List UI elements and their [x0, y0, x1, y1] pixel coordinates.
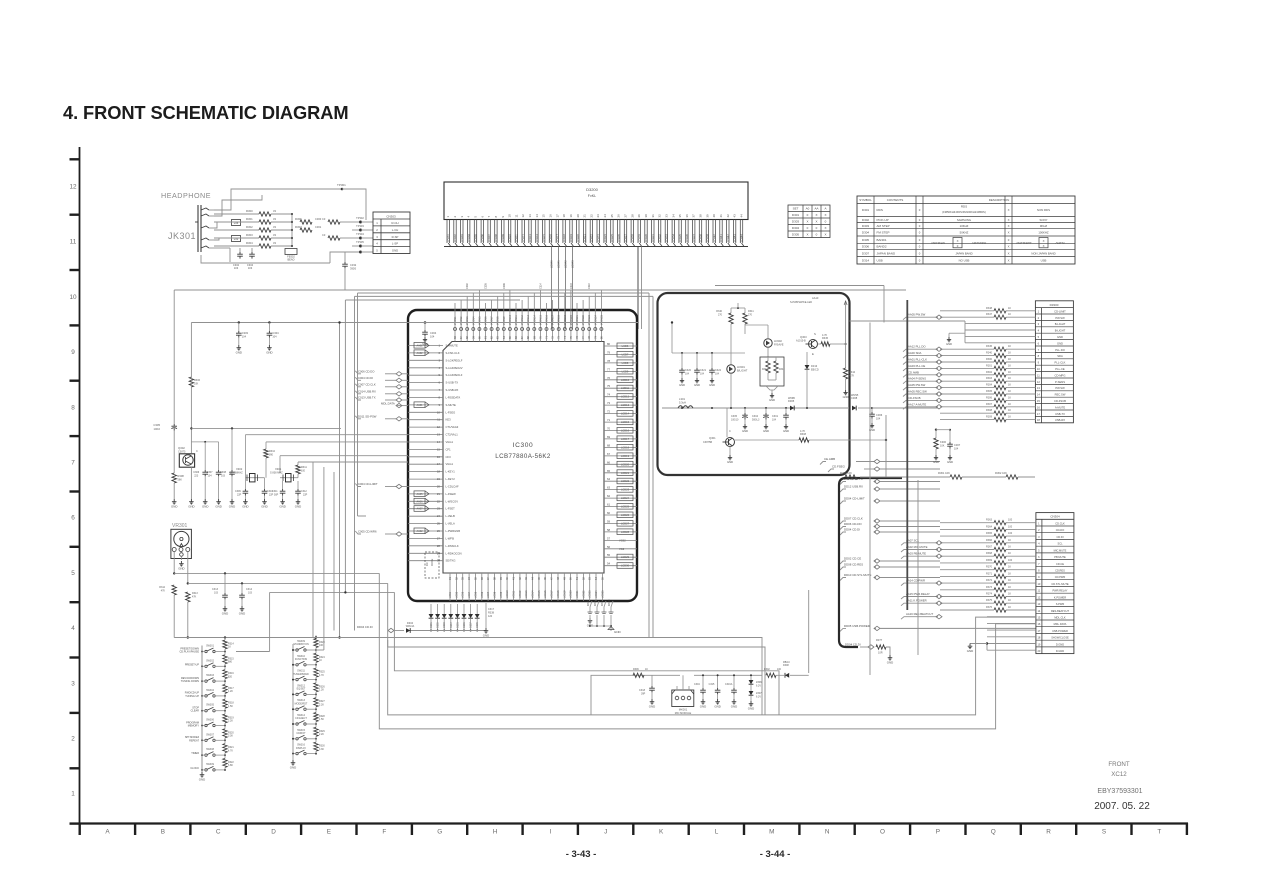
svg-text:VCOM20: VCOM20 — [570, 314, 573, 325]
svg-text:VCOM1: VCOM1 — [454, 316, 457, 325]
svg-text:FM STEP: FM STEP — [877, 231, 890, 235]
svg-text:65: 65 — [607, 469, 611, 473]
svg-text:GND: GND — [392, 249, 398, 253]
svg-text:1K: 1K — [1008, 396, 1011, 399]
svg-text:CF1: CF1 — [446, 447, 452, 451]
svg-text:D305: D305 — [792, 233, 800, 237]
svg-text:GND: GND — [709, 383, 715, 387]
svg-text:O: O — [880, 829, 885, 836]
svg-text:LD334: LD334 — [671, 234, 675, 242]
svg-text:GND: GND — [279, 504, 285, 508]
svg-text:16: 16 — [549, 214, 553, 218]
svg-text:26: 26 — [437, 529, 441, 533]
svg-text:AA05 REC.SW: AA05 REC.SW — [908, 390, 927, 394]
svg-text:L-CDLCAF: L-CDLCAF — [446, 485, 459, 489]
svg-text:HEADPHONE: HEADPHONE — [161, 191, 211, 200]
svg-text:LCD12: LCD12 — [621, 395, 630, 399]
svg-text:D318: D318 — [595, 600, 597, 606]
svg-text:I: I — [550, 829, 552, 836]
svg-text:GND: GND — [731, 704, 737, 708]
svg-text:GND: GND — [266, 350, 272, 354]
svg-text:11: 11 — [70, 239, 77, 246]
svg-text:AA02 MIC.MUTE: AA02 MIC.MUTE — [906, 545, 928, 549]
svg-text:PB.MUTE: PB.MUTE — [1054, 555, 1066, 559]
svg-text:X: X — [1008, 259, 1010, 263]
svg-text:CT1/VAG3: CT1/VAG3 — [446, 425, 459, 429]
svg-text:CD.PWR: CD.PWR — [1055, 575, 1066, 579]
svg-text:LD342: LD342 — [726, 234, 730, 242]
svg-text:AM/FM/LW: AM/FM/LW — [931, 241, 945, 245]
svg-text:L-KEY1: L-KEY1 — [446, 470, 456, 474]
svg-text:25: 25 — [437, 522, 441, 526]
svg-text:VCOM15: VCOM15 — [539, 314, 542, 325]
svg-text:1K: 1K — [1008, 371, 1011, 374]
svg-text:C3875B: C3875B — [703, 441, 712, 444]
svg-text:LCD8: LCD8 — [622, 361, 629, 365]
svg-text:AA14 CD.PWR: AA14 CD.PWR — [906, 579, 925, 583]
svg-text:10: 10 — [508, 214, 512, 218]
svg-text:1K: 1K — [1008, 384, 1011, 387]
svg-text:25: 25 — [610, 214, 614, 218]
svg-text:K.POWER: K.POWER — [1054, 595, 1066, 599]
svg-text:22P: 22P — [237, 494, 242, 497]
svg-text:C005 CD.WR6: C005 CD.WR6 — [358, 530, 377, 534]
svg-text:LD318: LD318 — [562, 234, 566, 242]
svg-text:AA02: AA02 — [416, 352, 423, 355]
svg-text:21: 21 — [437, 492, 441, 496]
svg-text:S-USB-TX: S-USB-TX — [446, 381, 459, 385]
svg-text:9KHZ: 9KHZ — [1040, 224, 1047, 228]
svg-text:LD343: LD343 — [733, 234, 737, 242]
svg-text:SW306: SW306 — [206, 719, 215, 722]
svg-text:TUNING DOWN: TUNING DOWN — [181, 680, 199, 683]
svg-text:VCOM18: VCOM18 — [558, 314, 561, 325]
svg-text:LD304: LD304 — [467, 234, 471, 242]
svg-text:AA: AA — [814, 207, 818, 211]
svg-text:1K: 1K — [1008, 307, 1011, 310]
svg-text:AA05: AA05 — [416, 493, 423, 496]
svg-text:LD343: LD343 — [571, 260, 575, 268]
svg-text:LCD7: LCD7 — [487, 591, 490, 598]
svg-text:LCD7: LCD7 — [622, 352, 629, 356]
svg-text:GND: GND — [1057, 341, 1063, 345]
svg-text:R-CH: R-CH — [392, 221, 399, 225]
svg-text:LCD15: LCD15 — [538, 590, 541, 598]
svg-text:42: 42 — [726, 214, 730, 218]
svg-text:S 838 MHZ: S 838 MHZ — [270, 472, 283, 475]
svg-text:LCD22: LCD22 — [621, 479, 630, 483]
svg-text:L-WSCGV: L-WSCGV — [446, 499, 459, 503]
svg-text:D305: D305 — [862, 238, 870, 242]
svg-text:14: 14 — [437, 440, 441, 444]
svg-text:VCOM11: VCOM11 — [515, 315, 518, 325]
svg-text:TP305: TP305 — [356, 240, 364, 244]
svg-text:34: 34 — [671, 214, 675, 218]
svg-text:59: 59 — [607, 520, 611, 524]
svg-text:5.3uH: 5.3uH — [679, 401, 686, 405]
svg-text:C316A: C316A — [725, 683, 733, 686]
svg-text:L301: L301 — [679, 397, 685, 401]
svg-text:CD.DI: CD.DI — [1056, 535, 1063, 539]
svg-text:RB/10: RB/10 — [783, 661, 790, 664]
svg-text:X: X — [815, 220, 817, 224]
svg-text:680: 680 — [228, 661, 233, 664]
svg-text:22P: 22P — [303, 494, 308, 497]
svg-text:1K: 1K — [1008, 586, 1011, 589]
svg-text:GND: GND — [843, 395, 849, 399]
svg-text:X302: X302 — [236, 467, 243, 471]
svg-text:X: X — [824, 226, 826, 230]
svg-text:GND: GND — [714, 704, 720, 708]
svg-text:39: 39 — [705, 214, 709, 218]
svg-text:35: 35 — [678, 214, 682, 218]
svg-text:MDL.DATA: MDL.DATA — [1054, 622, 1067, 626]
svg-text:103: 103 — [248, 592, 253, 595]
svg-text:19: 19 — [569, 214, 573, 218]
svg-text:VCOM25: VCOM25 — [600, 314, 603, 325]
svg-text:VGG1: VGG1 — [446, 462, 454, 466]
svg-text:5: 5 — [71, 570, 75, 577]
svg-text:LD335: LD335 — [678, 234, 682, 242]
svg-text:LCD2: LCD2 — [455, 591, 458, 598]
svg-text:LD328: LD328 — [630, 234, 634, 242]
svg-text:1K: 1K — [1008, 352, 1011, 355]
svg-text:60: 60 — [607, 511, 611, 515]
svg-text:10K: 10K — [940, 445, 945, 448]
svg-text:LCD22: LCD22 — [582, 590, 585, 598]
svg-text:SD/TKG: SD/TKG — [446, 559, 456, 563]
svg-text:66: 66 — [607, 460, 611, 464]
svg-text:D.GND: D.GND — [1056, 649, 1064, 653]
svg-text:1.2K: 1.2K — [228, 690, 233, 693]
svg-text:KE3: KE3 — [446, 418, 452, 422]
svg-text:79: 79 — [607, 350, 611, 354]
svg-text:270: 270 — [748, 314, 753, 317]
svg-text:55: 55 — [607, 553, 611, 557]
svg-text:1K: 1K — [1008, 566, 1011, 569]
svg-text:C: C — [216, 829, 221, 836]
svg-text:F: F — [382, 829, 386, 836]
svg-text:LD313: LD313 — [528, 234, 532, 242]
svg-text:JK301: JK301 — [168, 231, 196, 241]
svg-text:DD04 CD-LIMIT: DD04 CD-LIMIT — [844, 497, 865, 501]
svg-text:K: K — [659, 829, 664, 836]
svg-text:D314: D314 — [862, 259, 870, 263]
svg-text:R374: R374 — [986, 593, 993, 596]
svg-text:44: 44 — [740, 214, 744, 218]
svg-text:LD305: LD305 — [474, 234, 478, 242]
svg-text:GND: GND — [947, 460, 953, 464]
svg-text:LD341: LD341 — [719, 234, 723, 242]
svg-text:LD307: LD307 — [487, 234, 491, 242]
svg-text:R369: R369 — [986, 559, 993, 562]
svg-text:12: 12 — [521, 214, 525, 218]
svg-text:LD342: LD342 — [564, 260, 568, 268]
svg-text:11: 11 — [437, 418, 440, 422]
svg-text:1K: 1K — [1008, 409, 1011, 412]
svg-text:LD301: LD301 — [446, 234, 450, 242]
svg-text:103: 103 — [221, 475, 226, 478]
svg-text:LCB77880A-56K2: LCB77880A-56K2 — [495, 453, 551, 460]
svg-text:100KHZ: 100KHZ — [1038, 231, 1049, 235]
svg-text:12: 12 — [69, 184, 77, 191]
svg-text:X: X — [1043, 239, 1045, 243]
svg-text:4.7K: 4.7K — [849, 375, 854, 378]
svg-text:W06B: W06B — [788, 397, 795, 400]
svg-text:X: X — [806, 233, 808, 237]
svg-text:SHOW/CLOSE: SHOW/CLOSE — [1051, 636, 1069, 640]
svg-text:500/L3: 500/L3 — [752, 419, 760, 422]
svg-text:L-RSSDATA: L-RSSDATA — [446, 395, 461, 399]
svg-text:20: 20 — [437, 485, 441, 489]
svg-text:R376: R376 — [986, 606, 993, 609]
svg-text:CD-MPG: CD-MPG — [1055, 373, 1066, 377]
svg-text:104: 104 — [430, 335, 435, 339]
svg-text:L-SP: L-SP — [392, 242, 398, 246]
svg-text:LD320: LD320 — [576, 234, 580, 242]
svg-text:VCOM6: VCOM6 — [485, 316, 488, 325]
svg-text:CN303: CN303 — [386, 214, 396, 218]
svg-text:8: 8 — [71, 404, 75, 411]
svg-text:32.768KHZ: 32.768KHZ — [230, 472, 243, 475]
svg-text:CD/ROT: CD/ROT — [296, 732, 306, 735]
svg-text:LCD19: LCD19 — [621, 454, 630, 458]
svg-text:B: B — [161, 829, 165, 836]
svg-text:NON JAPAN BAND: NON JAPAN BAND — [1031, 251, 1055, 255]
svg-text:39P: 39P — [641, 693, 646, 696]
svg-text:GND: GND — [679, 383, 685, 387]
svg-text:DD12 USB.RX: DD12 USB.RX — [844, 485, 863, 489]
svg-text:GND: GND — [742, 429, 748, 433]
svg-text:LD303: LD303 — [460, 234, 464, 242]
svg-text:C307: C307 — [954, 443, 961, 447]
svg-text:DD07 CD.CLK: DD07 CD.CLK — [844, 517, 863, 521]
svg-text:100: 100 — [777, 668, 782, 671]
svg-text:LD326: LD326 — [617, 234, 621, 242]
svg-text:R348: R348 — [986, 307, 993, 310]
svg-text:L: L — [715, 829, 719, 836]
svg-text:R342: R342 — [762, 369, 768, 371]
svg-text:Q301: Q301 — [709, 436, 716, 440]
svg-text:GND: GND — [188, 504, 194, 508]
svg-text:15: 15 — [1037, 399, 1040, 403]
svg-text:LCD26: LCD26 — [621, 513, 630, 517]
svg-text:RES-BEATCUT: RES-BEATCUT — [1051, 609, 1070, 613]
svg-text:S-LGKPEOLF: S-LGKPEOLF — [446, 358, 463, 362]
svg-text:AA00 SDA: AA00 SDA — [908, 351, 922, 355]
svg-text:GND: GND — [727, 460, 733, 464]
svg-text:R370: R370 — [986, 566, 993, 569]
svg-text:PLL-CLK: PLL-CLK — [1055, 361, 1066, 365]
svg-text:VCOM17: VCOM17 — [552, 314, 555, 325]
svg-text:AA10: AA10 — [812, 296, 819, 300]
svg-text:10KHZ: 10KHZ — [960, 224, 969, 228]
svg-text:VCOM5: VCOM5 — [478, 316, 481, 325]
svg-text:S.PWR: S.PWR — [1056, 602, 1065, 606]
svg-text:R308: R308 — [986, 409, 993, 412]
svg-text:VCOM21: VCOM21 — [576, 314, 579, 325]
svg-text:USB-TX: USB-TX — [1055, 412, 1065, 416]
svg-text:62: 62 — [607, 494, 611, 498]
svg-text:X: X — [1008, 218, 1010, 222]
svg-text:LCD10: LCD10 — [621, 378, 630, 382]
svg-text:LD319: LD319 — [569, 234, 573, 242]
svg-text:AA03 PB.MUTE: AA03 PB.MUTE — [906, 552, 926, 556]
svg-text:R308: R308 — [800, 433, 807, 436]
svg-text:LCD24: LCD24 — [595, 590, 598, 598]
svg-text:R366: R366 — [986, 539, 993, 542]
svg-text:C004 CD.DI: C004 CD.DI — [358, 376, 373, 380]
svg-text:D3200: D3200 — [586, 187, 599, 192]
svg-text:CLEAR: CLEAR — [191, 710, 200, 713]
svg-text:MIC.MUTE: MIC.MUTE — [1054, 548, 1067, 552]
svg-text:17: 17 — [437, 462, 441, 466]
svg-text:L-RDKOCGN: L-RDKOCGN — [446, 551, 462, 555]
svg-text:LD332: LD332 — [658, 234, 662, 242]
svg-text:LD310: LD310 — [508, 234, 512, 242]
svg-text:27: 27 — [437, 536, 441, 540]
svg-text:LCD17: LCD17 — [621, 437, 630, 441]
svg-text:VSS2: VSS2 — [619, 538, 626, 542]
svg-text:B-LIGHT: B-LIGHT — [1055, 322, 1066, 326]
svg-text:CD-FSCB: CD-FSCB — [908, 396, 921, 400]
svg-text:D304: D304 — [862, 231, 870, 235]
svg-text:AA07: AA07 — [416, 508, 423, 511]
svg-text:100: 100 — [1008, 519, 1013, 522]
svg-text:X: X — [1008, 245, 1010, 249]
svg-text:LD330: LD330 — [644, 234, 648, 242]
svg-text:C300: C300 — [315, 217, 322, 221]
svg-text:4.7K: 4.7K — [822, 334, 827, 337]
svg-text:CD-DO: CD-DO — [1056, 528, 1065, 532]
svg-text:C006 CD.DO: C006 CD.DO — [358, 369, 375, 373]
svg-text:C3: C3 — [322, 217, 326, 221]
svg-text:23: 23 — [596, 214, 600, 218]
svg-text:56K: 56K — [178, 479, 183, 482]
svg-text:L-WFB: L-WFB — [446, 536, 455, 540]
svg-text:EB/CD: EB/CD — [811, 369, 819, 372]
svg-text:S-LGKPEOLF: S-LGKPEOLF — [446, 373, 463, 377]
svg-text:80: 80 — [607, 342, 611, 346]
svg-text:VCOM22: VCOM22 — [582, 314, 585, 325]
svg-text:S: S — [814, 332, 816, 336]
svg-text:LD331: LD331 — [651, 234, 655, 242]
svg-text:D306: D306 — [463, 622, 466, 628]
svg-text:LCD1: LCD1 — [449, 591, 452, 598]
svg-text:GND: GND — [239, 611, 245, 615]
svg-text:FvKL: FvKL — [588, 194, 596, 198]
svg-text:100: 100 — [1008, 532, 1013, 535]
svg-text:C305: C305 — [153, 423, 160, 427]
svg-text:CD.RES: CD.RES — [1055, 569, 1065, 573]
svg-text:390: 390 — [269, 454, 274, 457]
svg-text:LCD20: LCD20 — [570, 590, 573, 598]
svg-text:C3875: C3875 — [178, 450, 186, 453]
svg-text:S-USB-RX: S-USB-RX — [446, 388, 459, 392]
svg-text:GND: GND — [236, 350, 242, 354]
svg-text:R361 10K: R361 10K — [938, 471, 950, 475]
svg-text:S-RMUTE: S-RMUTE — [446, 344, 458, 348]
svg-text:R305: R305 — [986, 390, 993, 393]
svg-text:LCD10: LCD10 — [506, 590, 509, 598]
svg-text:GND: GND — [178, 566, 184, 570]
svg-text:103: 103 — [248, 266, 253, 270]
svg-text:14: 14 — [535, 214, 539, 218]
svg-text:LCD30: LCD30 — [621, 564, 630, 568]
svg-text:76: 76 — [607, 376, 611, 380]
svg-text:SDA: SDA — [1057, 354, 1063, 358]
svg-text:MDL.CLK: MDL.CLK — [1054, 616, 1066, 620]
svg-text:LCD25: LCD25 — [621, 505, 630, 509]
svg-text:GND: GND — [215, 504, 221, 508]
svg-text:4: 4 — [71, 625, 75, 632]
svg-text:2.2K: 2.2K — [319, 703, 324, 706]
svg-text:1K: 1K — [1008, 606, 1011, 609]
svg-text:SW301: SW301 — [206, 645, 215, 648]
svg-text:C306: C306 — [876, 413, 883, 417]
svg-text:DD08 CD.RES: DD08 CD.RES — [844, 563, 863, 567]
svg-text:1K: 1K — [1008, 364, 1011, 367]
svg-text:18: 18 — [562, 214, 566, 218]
svg-text:1K: 1K — [1008, 599, 1011, 602]
svg-text:GND: GND — [748, 706, 754, 710]
svg-text:L-PWRGNB: L-PWRGNB — [446, 529, 461, 533]
svg-text:CF3: CF3 — [446, 455, 452, 459]
svg-text:19: 19 — [437, 477, 441, 481]
svg-text:LCD28: LCD28 — [621, 530, 630, 534]
svg-text:NO USB: NO USB — [959, 259, 970, 263]
svg-text:6.2V: 6.2V — [756, 685, 761, 688]
svg-text:Q: Q — [991, 829, 996, 836]
svg-text:12: 12 — [1037, 380, 1040, 384]
svg-text:LD314: LD314 — [535, 234, 539, 242]
svg-text:104: 104 — [685, 373, 690, 376]
svg-text:100: 100 — [1008, 525, 1013, 528]
svg-text:38: 38 — [699, 214, 703, 218]
svg-text:3.3K: 3.3K — [228, 735, 233, 738]
svg-text:LD311: LD311 — [515, 234, 519, 242]
svg-text:104: 104 — [208, 475, 213, 478]
svg-text:R302: R302 — [764, 668, 770, 671]
svg-text:73: 73 — [607, 401, 611, 405]
svg-text:AM/FM: AM/FM — [1055, 241, 1065, 245]
svg-text:1K: 1K — [1008, 416, 1011, 419]
svg-text:LD302: LD302 — [453, 234, 457, 242]
svg-text:GND: GND — [202, 504, 208, 508]
svg-text:LCD23: LCD23 — [621, 488, 630, 492]
svg-text:2.2K: 2.2K — [319, 733, 324, 736]
svg-text:C314: C314 — [539, 283, 542, 289]
svg-text:TP304: TP304 — [356, 232, 364, 236]
svg-text:12: 12 — [437, 425, 441, 429]
svg-text:D3300: D3300 — [1050, 303, 1059, 307]
svg-text:22: 22 — [589, 214, 593, 218]
svg-text:LD316: LD316 — [549, 234, 553, 242]
svg-text:LD315: LD315 — [542, 234, 546, 242]
svg-text:11: 11 — [1037, 373, 1040, 377]
svg-text:LCD11: LCD11 — [621, 386, 629, 390]
svg-text:LD312: LD312 — [521, 234, 525, 242]
svg-text:10: 10 — [437, 410, 441, 414]
svg-text:TUNING UP: TUNING UP — [185, 695, 199, 698]
svg-text:JAPAN BAND: JAPAN BAND — [877, 251, 896, 255]
svg-text:N: N — [825, 829, 830, 836]
svg-text:VCOM7: VCOM7 — [491, 316, 494, 325]
svg-text:CD.STL.MUTE: CD.STL.MUTE — [1051, 582, 1069, 586]
svg-text:EBY37593301: EBY37593301 — [1097, 788, 1142, 795]
svg-text:RDS: RDS — [877, 208, 883, 212]
svg-text:D307: D307 — [470, 622, 473, 628]
